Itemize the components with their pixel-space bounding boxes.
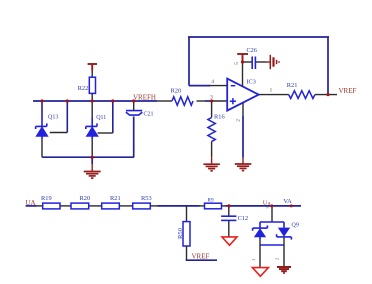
pin 1 output <box>259 88 289 95</box>
junction C12 <box>227 204 230 207</box>
svg-text:Q11: Q11 <box>96 115 106 121</box>
resistor R50 <box>177 206 190 260</box>
wire VREFH rail <box>33 100 227 102</box>
ground <box>84 157 101 178</box>
junction Q11 right leg <box>111 99 114 102</box>
svg-text:R21: R21 <box>110 195 121 202</box>
svg-text:VREFH: VREFH <box>133 94 156 102</box>
svg-text:R19: R19 <box>41 195 52 202</box>
pin 4 <box>189 79 227 85</box>
svg-text:R9: R9 <box>208 197 214 203</box>
junction Q13 top <box>40 99 43 102</box>
junction pin 5 supply <box>241 60 244 63</box>
ground <box>203 157 220 171</box>
svg-text:R16: R16 <box>214 113 225 120</box>
svg-text:2: 2 <box>236 119 242 122</box>
transistor Q9 <box>253 206 299 245</box>
wire VREF bottom <box>186 259 217 261</box>
capacitor C12 <box>221 206 248 237</box>
wire <box>91 71 93 78</box>
svg-text:Q13: Q13 <box>48 114 58 120</box>
resistor R22 <box>78 77 96 93</box>
wire <box>283 245 285 266</box>
wire <box>259 245 261 267</box>
wire feedback loop <box>188 37 329 95</box>
pin 2 <box>236 103 244 122</box>
svg-text:1: 1 <box>251 258 256 261</box>
junction ground rail <box>91 156 94 159</box>
svg-text:R50: R50 <box>177 227 184 239</box>
power ground (red triangle) <box>252 268 268 277</box>
ground <box>235 158 252 171</box>
svg-text:VREF: VREF <box>192 253 210 261</box>
svg-text:C26: C26 <box>247 47 257 54</box>
svg-text:C12: C12 <box>238 215 248 222</box>
capacitor C26 <box>243 47 271 69</box>
svg-text:4: 4 <box>211 79 214 85</box>
wire main bottom <box>26 205 301 207</box>
svg-text:IC3: IC3 <box>247 79 256 86</box>
transistor Q13 <box>36 101 68 157</box>
resistor R16 <box>208 101 225 157</box>
svg-text:R53: R53 <box>141 195 152 202</box>
junction VA <box>290 204 293 207</box>
capacitor C21 <box>126 101 154 157</box>
wire <box>315 94 337 96</box>
junction Ua/Q9 <box>270 204 273 207</box>
svg-text:R20: R20 <box>171 88 182 95</box>
resistor R21 <box>287 82 315 99</box>
svg-text:1: 1 <box>270 88 273 94</box>
junction node 3 <box>210 99 213 102</box>
transistor Q11 <box>86 101 113 157</box>
svg-text:Q9: Q9 <box>292 222 299 228</box>
op-amp IC3 <box>227 79 259 111</box>
power ground (red triangle) <box>222 237 237 245</box>
ground (sideways) <box>270 55 279 69</box>
power symbol op-amp supply <box>237 54 248 62</box>
power symbol (bar) <box>88 64 97 71</box>
svg-text:C21: C21 <box>144 112 154 118</box>
svg-text:2: 2 <box>275 257 280 260</box>
resistor R20 <box>71 195 90 209</box>
svg-text:R22: R22 <box>78 85 89 92</box>
junction Q13 right leg <box>66 99 69 102</box>
resistor R53 <box>133 195 152 209</box>
junction R22/Q11 <box>91 99 94 102</box>
junction C21/VREFH <box>132 99 135 102</box>
resistor R19 <box>41 195 60 209</box>
svg-text:5: 5 <box>234 62 240 65</box>
resistor R21 <box>102 195 121 209</box>
wire bottom rail <box>42 156 134 158</box>
resistor R9 <box>205 197 222 208</box>
svg-text:R21: R21 <box>287 82 298 89</box>
resistor R20 <box>171 88 194 106</box>
svg-text:VA: VA <box>283 198 292 205</box>
svg-text:R20: R20 <box>80 195 91 202</box>
svg-text:VREF: VREF <box>339 87 357 95</box>
ground <box>277 267 291 273</box>
wire <box>91 93 93 101</box>
pin 5 <box>234 62 243 87</box>
wire <box>242 115 244 157</box>
junction VREF feedback <box>326 93 329 96</box>
